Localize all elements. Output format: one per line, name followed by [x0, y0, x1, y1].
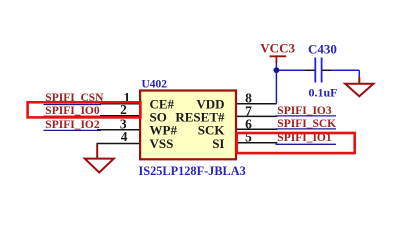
svg-text:SPIFI_IO0: SPIFI_IO0 [45, 105, 100, 117]
svg-text:SI: SI [212, 136, 224, 151]
svg-text:SPIFI_SCK: SPIFI_SCK [277, 118, 336, 130]
svg-text:U402: U402 [142, 79, 168, 91]
svg-text:SPIFI_IO2: SPIFI_IO2 [45, 119, 100, 131]
svg-text:C430: C430 [308, 42, 337, 57]
svg-text:2: 2 [120, 102, 127, 117]
svg-text:4: 4 [121, 129, 128, 144]
svg-text:SPIFI_IO3: SPIFI_IO3 [277, 105, 332, 117]
svg-text:IS25LP128F-JBLA3: IS25LP128F-JBLA3 [139, 164, 246, 178]
svg-text:0.1uF: 0.1uF [309, 86, 338, 100]
svg-text:5: 5 [245, 129, 252, 144]
svg-text:VSS: VSS [150, 136, 174, 151]
svg-text:VCC3: VCC3 [260, 41, 295, 56]
